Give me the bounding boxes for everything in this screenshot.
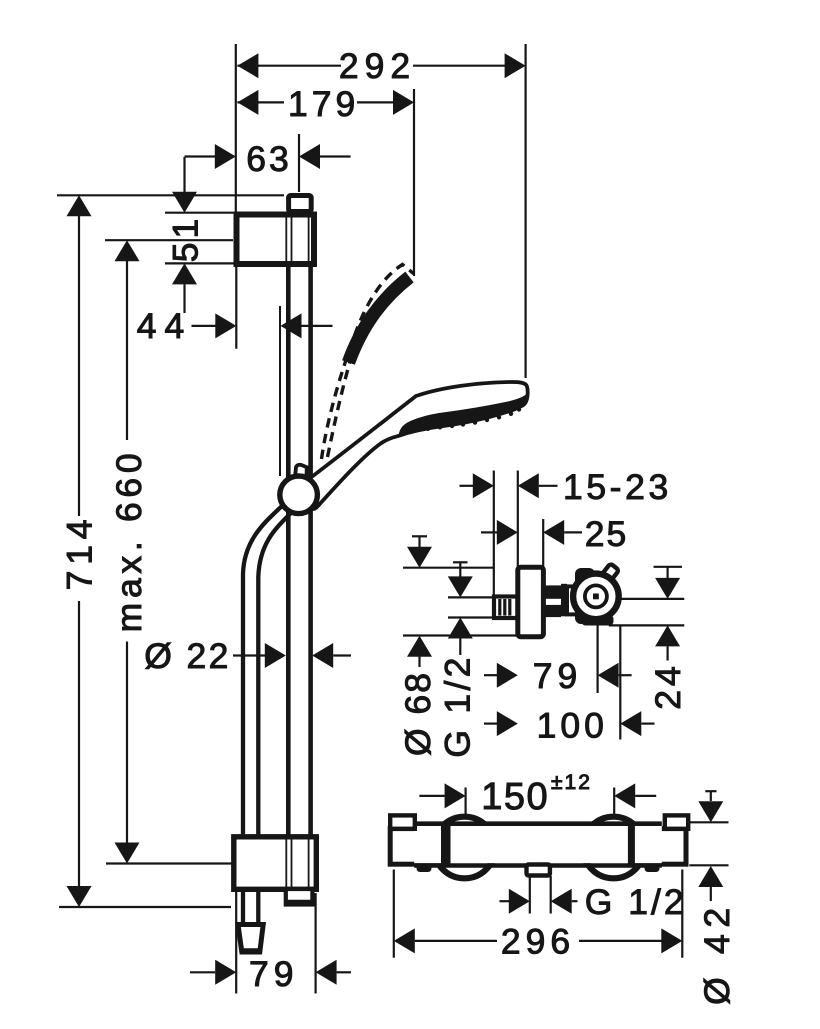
extension line rail-center-top x=299 [298, 134, 300, 192]
valve stem bars [543, 584, 567, 617]
mixer barrel [414, 824, 662, 866]
slider bracket top [237, 215, 315, 265]
dim 100 [484, 705, 655, 745]
svg-text:G 1/2: G 1/2 [585, 882, 687, 922]
shower hose [243, 502, 292, 924]
mixer handle right [583, 817, 645, 879]
svg-text:63: 63 [246, 139, 292, 179]
mixer escutcheon right [630, 829, 686, 865]
dim 179 [237, 84, 414, 124]
pivot nub [295, 465, 307, 480]
valve center line x=597.6 [596, 626, 598, 694]
valve ref line top [403, 567, 494, 569]
mixer bump right [645, 865, 660, 872]
dim 63 [185, 139, 351, 179]
hand shower body [305, 382, 528, 509]
svg-text:292: 292 [339, 46, 416, 86]
dim 79 bottom [190, 891, 351, 994]
rail tube [288, 213, 310, 889]
valve front line x=620.3 [619, 627, 621, 740]
mixer ext line right-handle [613, 788, 615, 816]
rail top cap [289, 196, 312, 212]
dim 292 [237, 46, 525, 86]
mixer handle-edge column left [441, 822, 451, 866]
extension line hose-axis x=280 [279, 306, 281, 476]
dim 51 [165, 157, 234, 313]
dashed raised shower outline [322, 265, 414, 460]
svg-text:Ø 22: Ø 22 [144, 636, 231, 676]
dim max. 660 [105, 240, 235, 863]
dim diameter 22 [144, 636, 351, 676]
mixer bump left [417, 865, 432, 872]
bottom bracket [234, 837, 316, 890]
valve ref line thread-top [448, 596, 494, 598]
dim 15-23 [460, 467, 672, 507]
svg-text:max. 660: max. 660 [109, 449, 149, 633]
dashed shower spray face band [349, 277, 410, 363]
rail bottom end [286, 889, 313, 905]
pivot slider ring [280, 476, 318, 514]
wall line min x=493.8 [493, 471, 495, 597]
svg-text:24: 24 [648, 662, 688, 710]
svg-text:100: 100 [537, 705, 608, 745]
svg-text:15-23: 15-23 [563, 467, 672, 507]
mixer escutcheon left [390, 829, 446, 865]
svg-text:296: 296 [501, 922, 575, 962]
dim diameter 68 arrows [398, 536, 438, 756]
valve ref line bottom [403, 634, 519, 636]
dim 296 [394, 870, 683, 962]
extension line wall-left x=236 [235, 44, 237, 213]
svg-text:44: 44 [137, 306, 193, 346]
svg-text:179: 179 [288, 84, 359, 124]
valve handle lug [600, 563, 619, 583]
valve union box [567, 586, 583, 614]
valve foot [582, 615, 614, 626]
svg-text:79: 79 [249, 954, 299, 994]
dim G 1/2 mixer [500, 876, 687, 922]
dim 44 [137, 306, 333, 346]
dim 24 [609, 567, 688, 710]
svg-text:Ø 68: Ø 68 [398, 671, 438, 756]
mixer wall nut right [665, 815, 688, 828]
svg-text:714: 714 [59, 514, 99, 591]
dim 79 valve [484, 656, 632, 696]
mixer handle-edge column right [628, 822, 635, 865]
rail lines inside top bracket [286, 215, 308, 264]
dim 25 [481, 514, 628, 554]
mixer outlet [527, 865, 550, 876]
valve thread G1/2 [494, 597, 518, 619]
escutcheon face line x=543.2 [542, 519, 544, 568]
extension line bracket-bottom x=236.3 [235, 266, 237, 349]
mixer handle left [434, 817, 496, 879]
wall line max x=517.8 [517, 471, 519, 568]
rail lines inside bottom bracket [286, 838, 308, 889]
extension line shower-head-right x=525.6 [524, 44, 526, 378]
hand shower spray face band [399, 394, 528, 436]
dim G 1/2 valve arrows [437, 562, 477, 757]
svg-text:79: 79 [533, 656, 583, 696]
svg-text:±12: ±12 [551, 771, 592, 794]
valve nut silhouette [575, 568, 595, 624]
valve ref line thread-bottom [448, 616, 494, 618]
svg-text:G 1/2: G 1/2 [437, 654, 477, 757]
dim 150 +-12 [419, 771, 656, 818]
extension line dashed-head x=414 [413, 89, 415, 276]
svg-text:Ø 42: Ø 42 [697, 901, 737, 1005]
dim 714 [57, 195, 284, 907]
valve escutcheon [518, 567, 544, 636]
svg-text:25: 25 [585, 514, 629, 554]
hose nut [238, 925, 263, 953]
svg-text:51: 51 [165, 215, 205, 263]
svg-text:150: 150 [481, 776, 549, 818]
valve inner circle [585, 585, 607, 607]
dim diameter 42 [687, 791, 737, 1005]
mixer wall nut left [390, 815, 415, 828]
mixer ext line left-handle [465, 788, 467, 816]
valve body circle [573, 574, 619, 620]
